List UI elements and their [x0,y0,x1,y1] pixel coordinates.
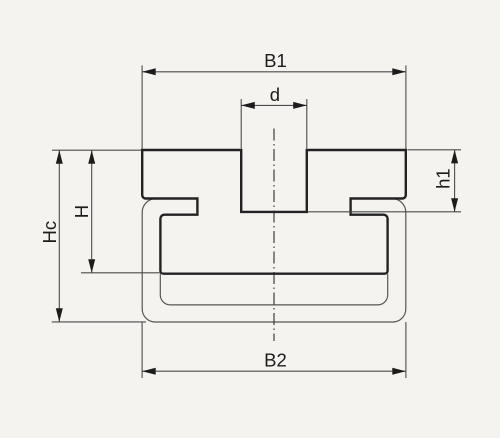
arrow d left [241,102,255,109]
arrow h1 bottom [451,198,458,212]
svg-text:B1: B1 [264,50,287,71]
extension line d left [240,99,242,149]
svg-text:Hc: Hc [39,221,60,244]
extension line H bottom [81,272,160,274]
extension line top left (H, Hc) [52,149,141,151]
arrow B1 right [392,68,406,75]
arrow B2 right [392,368,406,375]
extension line B2 left [141,322,143,378]
centerline [273,129,275,342]
C-channel rail outer contour [142,199,406,323]
dimension line h1 [454,150,456,212]
svg-text:B2: B2 [264,350,287,371]
extension line B2 right [405,322,407,378]
dimension line d [241,104,307,106]
arrow Hc bottom [56,308,63,322]
arrow B2 left [142,368,156,375]
extension line h1 bottom [308,211,462,213]
dimension line Hc [58,150,60,322]
arrow d right [293,102,307,109]
arrow H bottom [88,259,95,273]
svg-text:H: H [71,205,92,218]
dimension line B2 [142,370,406,372]
dimension line H [91,150,93,273]
extension line d right [306,99,308,149]
svg-text:d: d [270,84,280,105]
extension line B1 left [141,65,143,149]
extension line h1 top [408,149,462,151]
arrow B1 left [142,68,156,75]
arrow H top [88,150,95,164]
plastic guide profile outline [142,150,406,274]
svg-text:h1: h1 [432,168,453,189]
extension line B1 right [405,65,407,149]
dimension line B1 [142,71,406,73]
extension line Hc bottom [52,321,146,323]
arrow h1 top [451,150,458,164]
arrow Hc top [56,150,63,164]
C-channel rail inner contour [160,274,387,305]
